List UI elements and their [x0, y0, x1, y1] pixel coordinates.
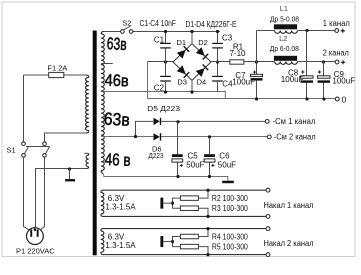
svg-text:D2: D2 [198, 38, 208, 47]
svg-text:1.3-1.5A: 1.3-1.5A [105, 203, 136, 212]
svg-text:-См 1 канал: -См 1 канал [273, 117, 316, 126]
svg-text:46 в: 46 в [104, 150, 131, 170]
svg-text:100uF: 100uF [332, 77, 355, 86]
svg-text:Др 5-0.08: Др 5-0.08 [270, 14, 299, 23]
svg-text:D4: D4 [197, 78, 207, 87]
svg-text:46в: 46в [104, 72, 129, 91]
svg-text:D3: D3 [177, 78, 187, 87]
svg-text:50uF: 50uF [218, 160, 236, 169]
svg-text:L1: L1 [280, 4, 288, 13]
svg-text:P1 220VAC: P1 220VAC [16, 247, 55, 256]
svg-text:D1-D4 КД226Г-Е: D1-D4 КД226Г-Е [186, 20, 237, 29]
svg-text:D5 Д223: D5 Д223 [147, 104, 180, 113]
svg-text:100uF: 100uF [281, 75, 304, 84]
svg-text:100uF: 100uF [232, 78, 255, 87]
svg-text:C1-C4 10nF: C1-C4 10nF [140, 19, 177, 28]
svg-text:S1: S1 [7, 146, 16, 155]
svg-text:C2: C2 [154, 83, 165, 92]
svg-text:R3 100-300: R3 100-300 [212, 204, 248, 213]
svg-text:7-10: 7-10 [229, 49, 246, 58]
svg-text:Др 6-0.08: Др 6-0.08 [270, 44, 299, 53]
svg-text:1.3-1.5A: 1.3-1.5A [105, 241, 136, 250]
svg-text:0: 0 [342, 94, 347, 104]
svg-text:Д223: Д223 [149, 151, 164, 160]
svg-text:C3: C3 [222, 34, 233, 43]
svg-text:R5 100-300: R5 100-300 [212, 242, 248, 251]
svg-text:1 канал: 1 канал [323, 19, 350, 28]
svg-text:R2 100-300: R2 100-300 [212, 194, 248, 203]
svg-text:Накал 2 канал: Накал 2 канал [264, 239, 314, 248]
svg-text:2 канал: 2 канал [323, 49, 349, 58]
svg-text:R4 100-300: R4 100-300 [212, 232, 248, 241]
svg-text:50uF: 50uF [186, 160, 204, 169]
svg-text:63в: 63в [106, 34, 127, 54]
svg-text:C1: C1 [154, 36, 165, 45]
svg-text:Накал 1 канал: Накал 1 канал [264, 201, 314, 210]
svg-text:L2: L2 [279, 34, 287, 43]
svg-text:F1 2A: F1 2A [47, 64, 67, 73]
svg-text:63в: 63в [103, 109, 130, 130]
svg-text:-См 2 канал: -См 2 канал [274, 132, 316, 141]
svg-text:D1: D1 [177, 38, 187, 47]
svg-text:S2: S2 [122, 19, 131, 28]
